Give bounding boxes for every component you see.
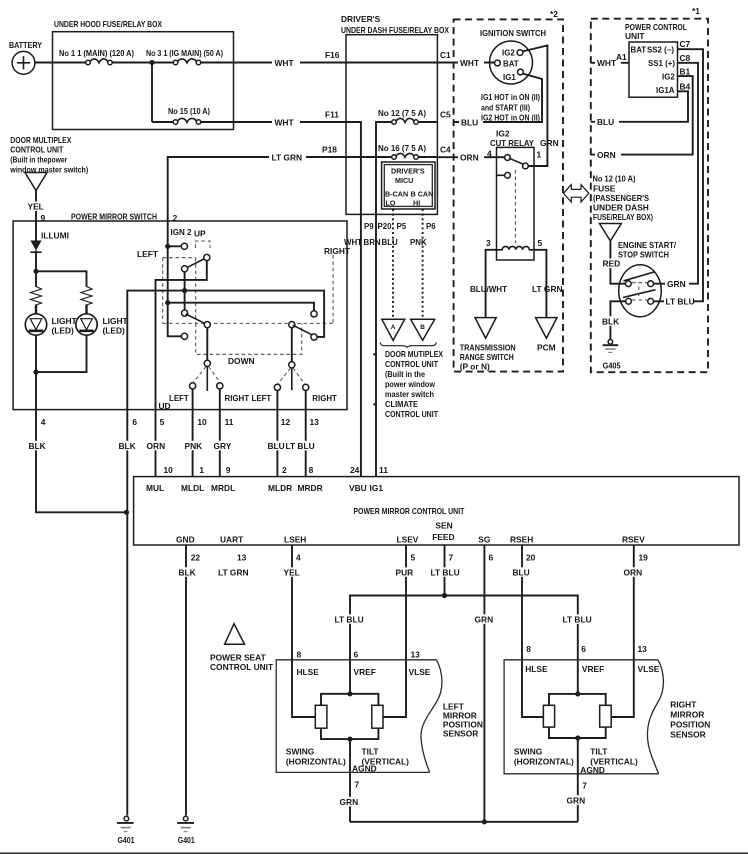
- note IG1/IG2 hot: [481, 92, 540, 123]
- svg-text:MLDL: MLDL: [181, 483, 204, 493]
- wire E to F: [206, 328, 208, 361]
- wire WHT row2 to F11: [201, 110, 346, 128]
- triangle door multiplex: [25, 173, 47, 191]
- svg-text:master switch: master switch: [385, 389, 434, 399]
- bridge top bus left sensor: [321, 694, 378, 706]
- wire A1 WHT: [591, 52, 629, 68]
- svg-text:8: 8: [309, 465, 314, 475]
- wire VLSE right to tilt pot: [611, 660, 634, 717]
- bridge bottom bus left sensor: [321, 728, 378, 739]
- wire LSEV 5 PUR: [395, 545, 416, 660]
- svg-text:20: 20: [526, 553, 536, 563]
- svg-text:ORN: ORN: [147, 441, 166, 451]
- svg-text:DOOR MUTIPLEX: DOOR MUTIPLEX: [385, 349, 443, 359]
- connector labels P9 P20 P5 P6: [364, 222, 436, 231]
- svg-text:BAT: BAT: [631, 46, 647, 55]
- svg-text:GRN: GRN: [567, 796, 586, 806]
- svg-text:IG1: IG1: [370, 483, 384, 493]
- svg-text:B CAN: B CAN: [411, 190, 434, 199]
- svg-text:13: 13: [237, 553, 247, 563]
- wire LT BLU from switch: [664, 296, 695, 307]
- wire P20 vertical with fuse 12 branch: [376, 122, 391, 214]
- svg-text:RIGHT: RIGHT: [312, 394, 337, 403]
- wire F16 to C1 inside box: [346, 62, 437, 64]
- tilt pot resistor: [372, 705, 383, 728]
- wire pin10 PNK to MLDL: [183, 410, 207, 477]
- svg-text:LIGHT: LIGHT: [52, 316, 78, 326]
- node agnd tap left: [347, 737, 352, 742]
- svg-text:FUSE/RELAY BOX): FUSE/RELAY BOX): [593, 212, 653, 222]
- contact A: [181, 243, 187, 249]
- svg-text:WHT: WHT: [275, 58, 295, 68]
- wire diode to junction: [35, 251, 37, 288]
- svg-text:BLU: BLU: [461, 118, 478, 128]
- under hood fuse/relay box: [53, 19, 234, 130]
- svg-text:(HORIZONTAL): (HORIZONTAL): [514, 756, 574, 766]
- svg-text:VLSE: VLSE: [409, 667, 431, 677]
- svg-text:PNK: PNK: [185, 441, 203, 451]
- svg-text:10: 10: [197, 417, 207, 427]
- driver's under dash fuse/relay box: [341, 14, 449, 214]
- blade left lower: [186, 314, 209, 325]
- driver's MICU box: [382, 162, 435, 209]
- svg-text:22: 22: [191, 553, 201, 563]
- tilt pot resistor right: [600, 705, 612, 727]
- ground G405: [603, 340, 621, 371]
- svg-text:IG2: IG2: [502, 49, 515, 58]
- node GRN bus tap: [482, 819, 487, 824]
- wire pin13 lead: [305, 391, 307, 410]
- contact pin10: [190, 383, 196, 389]
- svg-text:SS1 (+): SS1 (+): [648, 59, 675, 68]
- wire YEL pin 9: [27, 191, 46, 241]
- wire fuse16 to C4: [419, 156, 438, 158]
- svg-text:BLK: BLK: [602, 317, 619, 327]
- svg-text:(LED): (LED): [52, 326, 75, 336]
- svg-text:HLSE: HLSE: [525, 664, 548, 674]
- svg-text:8: 8: [526, 644, 531, 654]
- svg-text:IGN 2: IGN 2: [171, 227, 192, 237]
- wire branch to right LED: [36, 271, 87, 287]
- LED left: [25, 305, 77, 336]
- wire contact A feed: [168, 245, 182, 247]
- svg-text:3: 3: [486, 238, 491, 248]
- svg-text:B1: B1: [680, 67, 691, 77]
- svg-text:LO: LO: [386, 199, 396, 208]
- wire LT GRN row3 to P18: [168, 145, 346, 222]
- svg-text:SENSOR: SENSOR: [443, 729, 478, 739]
- triangle transmission range switch: [460, 318, 516, 372]
- svg-text:6: 6: [489, 553, 494, 563]
- wire AGND down left sensor: [339, 739, 360, 822]
- wire pin11 GRY to MRDL: [212, 410, 234, 477]
- wire P20 BRN down to pin 11: [375, 214, 377, 476]
- svg-text:FEED: FEED: [432, 532, 454, 542]
- svg-text:LT BLU: LT BLU: [431, 568, 460, 578]
- contact J down right: [289, 362, 295, 368]
- dashed throws right: [278, 368, 305, 384]
- svg-text:BATTERY: BATTERY: [9, 40, 42, 50]
- dashed box *2 ignition circuit: [454, 9, 563, 372]
- wire P5 dotted from MICU: [392, 209, 394, 319]
- node vref tap right: [575, 691, 580, 696]
- svg-text:BLU: BLU: [268, 441, 285, 451]
- svg-text:C4: C4: [440, 145, 451, 155]
- wire right LED joins left: [36, 335, 87, 372]
- svg-text:C7: C7: [680, 39, 691, 49]
- wire F11 corner down to P9: [346, 122, 361, 214]
- contact D: [182, 310, 188, 316]
- wire pin12 BLU to MLDR: [266, 410, 290, 477]
- svg-text:BLK: BLK: [119, 441, 136, 451]
- fuse No 12 10A label: [593, 174, 654, 223]
- blade right: [293, 325, 315, 336]
- svg-text:POWER MIRROR CONTROL UNIT: POWER MIRROR CONTROL UNIT: [353, 506, 465, 516]
- ground G401 left: [117, 816, 135, 845]
- svg-text:BRN: BRN: [364, 238, 381, 247]
- svg-text:RIGHT: RIGHT: [324, 246, 351, 256]
- wire sen feed bus LT BLU: [334, 596, 593, 660]
- engine start/stop switch: [618, 240, 677, 317]
- wire P6 dotted from MICU: [422, 209, 424, 319]
- node LED join: [33, 370, 38, 375]
- wire GND 22 BLK to ground: [177, 545, 200, 815]
- svg-text:MRDR: MRDR: [298, 483, 323, 493]
- svg-text:No 3 1 (IG MAIN) (50 A): No 3 1 (IG MAIN) (50 A): [146, 48, 223, 58]
- fuse No 15 (10A): [152, 106, 210, 124]
- wire battery to fuse No 1-1: [35, 62, 86, 64]
- svg-text:LT GRN: LT GRN: [272, 153, 303, 163]
- svg-text:C8: C8: [680, 53, 691, 63]
- contact F down: [204, 360, 210, 366]
- right sensor pin labels: [525, 644, 660, 674]
- UART 13 LT GRN label only: [218, 553, 249, 578]
- svg-text:P9: P9: [364, 222, 374, 231]
- svg-text:VREF: VREF: [582, 664, 604, 674]
- svg-text:GRN: GRN: [475, 615, 494, 625]
- node bus2 tap: [182, 288, 187, 293]
- svg-text:RIGHT: RIGHT: [225, 394, 250, 403]
- ILLUMI diode: [30, 231, 69, 253]
- wire down from junction: [151, 63, 153, 123]
- svg-text:G405: G405: [603, 361, 621, 371]
- wire H to J: [291, 328, 293, 362]
- wire relay 3 BLU/WHT to transmission range switch: [470, 250, 508, 317]
- power mirror control unit box: [134, 477, 739, 545]
- svg-text:LSEV: LSEV: [397, 535, 419, 545]
- svg-text:P18: P18: [322, 145, 337, 155]
- wire VREF into bridge: [349, 660, 351, 694]
- label left mirror position sensor: [443, 702, 483, 739]
- svg-text:2: 2: [173, 213, 178, 223]
- contact G right top: [311, 311, 317, 317]
- svg-text:VBU: VBU: [349, 483, 367, 493]
- contact C: [182, 266, 188, 272]
- svg-text:4: 4: [487, 149, 492, 159]
- svg-text:P5: P5: [397, 222, 407, 231]
- fuse No 3-1 (IG MAIN 50A): [146, 48, 223, 65]
- wire pin12 lead: [276, 391, 278, 410]
- svg-text:LEFT: LEFT: [169, 394, 189, 403]
- node IGN2 top: [165, 244, 170, 249]
- svg-text:BLU: BLU: [382, 238, 399, 247]
- power mirror switch box: [13, 212, 347, 410]
- svg-text:13: 13: [310, 417, 320, 427]
- svg-text:A1: A1: [616, 52, 627, 62]
- dashed mechanical linkage: [163, 241, 333, 354]
- wire pin6 bus: [127, 291, 324, 410]
- svg-text:6: 6: [581, 644, 586, 654]
- right mirror position sensor box: [504, 660, 663, 774]
- svg-text:(PASSENGER'S: (PASSENGER'S: [593, 193, 649, 203]
- svg-text:BLU: BLU: [513, 568, 530, 578]
- svg-text:VLSE: VLSE: [638, 664, 660, 674]
- pin 24 11 labels: [350, 465, 388, 475]
- svg-text:LT BLU: LT BLU: [335, 615, 364, 625]
- svg-text:CONTROL UNIT: CONTROL UNIT: [385, 409, 439, 419]
- svg-text:SWING: SWING: [286, 747, 314, 757]
- wire IGN2 vertical: [168, 221, 182, 336]
- svg-text:IGNITION SWITCH: IGNITION SWITCH: [480, 28, 546, 38]
- wire WHT C1 to BAT: [437, 57, 494, 68]
- dashed throws left: [194, 367, 221, 383]
- svg-text:B4: B4: [680, 82, 691, 92]
- wire RED fuse to switch: [602, 241, 625, 284]
- wire C7 to LT BLU: [653, 49, 704, 301]
- svg-text:No 12 (10 A): No 12 (10 A): [593, 174, 636, 184]
- wire fuse12 to C5: [419, 121, 438, 123]
- svg-text:HLSE: HLSE: [297, 667, 320, 677]
- svg-text:WHT: WHT: [275, 118, 295, 128]
- list door multiplex / climate control unit: [373, 349, 443, 419]
- wire HLSE right to swing pot: [522, 660, 543, 717]
- svg-text:CONTROL UNIT: CONTROL UNIT: [385, 359, 439, 369]
- triangle connector B: [411, 319, 435, 340]
- svg-text:ORN: ORN: [624, 568, 643, 578]
- svg-text:YEL: YEL: [284, 568, 300, 578]
- svg-text:POWER MIRROR SWITCH: POWER MIRROR SWITCH: [71, 212, 157, 222]
- wire P18 to fuse 16: [346, 156, 391, 158]
- svg-text:IG1: IG1: [503, 73, 516, 82]
- wire pin13 LT BLU to MRDR: [285, 410, 319, 477]
- svg-text:13: 13: [638, 644, 648, 654]
- ground G401 right: [177, 816, 195, 845]
- brace under triangles: [380, 342, 436, 347]
- svg-text:POWER SEAT: POWER SEAT: [210, 653, 267, 663]
- svg-text:UART: UART: [220, 535, 244, 545]
- wire B to UD bus: [156, 261, 207, 410]
- svg-text:BLU: BLU: [597, 117, 614, 127]
- fuse No 12 (7.5A): [378, 108, 426, 124]
- wire SG GRN: [474, 545, 495, 822]
- wire ORN C4 to relay pin 4: [437, 152, 504, 163]
- svg-text:LT BLU: LT BLU: [286, 441, 315, 451]
- wire junction to fuse No 3-1: [152, 62, 173, 64]
- svg-text:POSITION: POSITION: [670, 720, 710, 730]
- svg-text:PNK: PNK: [410, 238, 427, 247]
- wire relay 5 LT GRN to PCM: [532, 250, 563, 317]
- svg-text:ORN: ORN: [597, 150, 616, 160]
- svg-text:LT GRN: LT GRN: [532, 284, 563, 294]
- svg-text:MUL: MUL: [146, 483, 164, 493]
- fuse No 1-1 (MAIN 120A): [59, 48, 134, 65]
- wire pin4 BLK: [27, 410, 127, 513]
- svg-text:SS2 (−): SS2 (−): [647, 46, 674, 55]
- wire LSEH 4 YEL: [283, 545, 301, 660]
- svg-text:power window: power window: [385, 379, 435, 389]
- svg-text:ENGINE START/: ENGINE START/: [618, 240, 677, 250]
- svg-text:1: 1: [199, 465, 204, 475]
- node sen feed tap: [442, 593, 447, 598]
- top pin labels inside control unit: [146, 483, 383, 493]
- wire GRN bottom bus: [350, 821, 578, 823]
- svg-text:IG2: IG2: [496, 129, 510, 139]
- resistor left: [31, 287, 42, 306]
- svg-text:FUSE: FUSE: [593, 184, 616, 194]
- svg-text:RSEV: RSEV: [622, 535, 645, 545]
- svg-text:P20: P20: [378, 222, 393, 231]
- svg-text:12: 12: [281, 417, 291, 427]
- svg-text:YEL: YEL: [28, 202, 44, 212]
- contact pin12: [274, 384, 280, 390]
- LED right: [76, 305, 129, 336]
- svg-text:TILT: TILT: [590, 747, 608, 757]
- battery: [9, 40, 42, 74]
- svg-text:*1: *1: [692, 6, 700, 16]
- wire pin5 ORN to MUL: [145, 410, 173, 477]
- svg-text:13: 13: [411, 650, 421, 660]
- wire RSEH 20 BLU: [512, 545, 536, 660]
- wire AGND down right sensor: [566, 738, 587, 822]
- svg-text:C1: C1: [440, 50, 451, 60]
- svg-text:11: 11: [379, 465, 388, 475]
- bottom pin labels inside control unit: [176, 521, 645, 545]
- node IGN2 mid: [165, 300, 170, 305]
- svg-text:5: 5: [538, 238, 543, 248]
- wire IGN2 right bus: [168, 303, 314, 311]
- svg-text:CUT RELAY: CUT RELAY: [490, 138, 534, 148]
- svg-text:HI: HI: [413, 199, 420, 208]
- wire BLK to ground: [602, 301, 626, 339]
- svg-text:2: 2: [282, 465, 287, 475]
- svg-text:F16: F16: [325, 50, 340, 60]
- svg-text:UP: UP: [194, 229, 206, 239]
- svg-text:GRN: GRN: [340, 797, 359, 807]
- svg-text:•: •: [373, 399, 376, 409]
- svg-text:DRIVER'S: DRIVER'S: [391, 167, 425, 176]
- svg-text:LT GRN: LT GRN: [218, 568, 249, 578]
- svg-text:SWING: SWING: [514, 747, 542, 757]
- svg-text:6: 6: [354, 650, 359, 660]
- svg-text:F11: F11: [325, 110, 339, 120]
- wire P9 WHT down to pin 24: [360, 214, 362, 476]
- dashed box *1 power control unit circuit: [591, 6, 708, 372]
- svg-text:5: 5: [411, 553, 416, 563]
- svg-text:AGND: AGND: [580, 765, 605, 775]
- wire C to D: [184, 272, 186, 310]
- svg-text:10: 10: [164, 465, 174, 475]
- svg-text:PCM: PCM: [537, 343, 556, 353]
- svg-text:ORN: ORN: [460, 153, 479, 163]
- svg-text:ILLUMI: ILLUMI: [41, 231, 69, 241]
- svg-text:GRN: GRN: [667, 279, 686, 289]
- svg-text:4: 4: [41, 417, 46, 427]
- left sensor text labels: [286, 747, 409, 774]
- svg-text:(P or N): (P or N): [460, 362, 490, 372]
- svg-text:TILT: TILT: [362, 747, 380, 757]
- svg-text:IG1A: IG1A: [656, 86, 675, 95]
- bridge bottom bus right sensor: [549, 727, 606, 738]
- svg-text:No 12 (7 5 A): No 12 (7 5 A): [378, 108, 426, 118]
- svg-text:9: 9: [226, 465, 231, 475]
- svg-text:6: 6: [132, 417, 137, 427]
- svg-text:No 1 1 (MAIN) (120 A): No 1 1 (MAIN) (120 A): [59, 48, 134, 58]
- wire pin6 BLK to ground: [117, 410, 137, 816]
- svg-text:RED: RED: [603, 259, 621, 269]
- svg-text:BLK: BLK: [29, 441, 46, 451]
- wire C8 to GRN: [653, 63, 699, 284]
- svg-text:window master switch): window master switch): [9, 165, 88, 175]
- wire B1 to ORN: [591, 76, 693, 160]
- triangle PCM: [536, 318, 558, 353]
- swing pot resistor: [315, 705, 327, 728]
- svg-text:IG1 HOT in ON (II): IG1 HOT in ON (II): [481, 92, 540, 102]
- wire color labels WHT BRN BLU PNK: [344, 238, 427, 247]
- svg-text:LT BLU: LT BLU: [563, 615, 592, 625]
- wire fuse1 to junction: [113, 62, 152, 64]
- svg-text:G401: G401: [118, 835, 135, 845]
- svg-text:RANGE SWITCH: RANGE SWITCH: [460, 352, 514, 362]
- svg-text:CONTROL UNIT: CONTROL UNIT: [210, 662, 274, 672]
- resistor right: [81, 287, 92, 306]
- wire IG2 to GRN vertical: [522, 46, 547, 167]
- svg-text:(Built in thepower: (Built in thepower: [10, 155, 68, 165]
- svg-text:CONTROL UNIT: CONTROL UNIT: [10, 145, 64, 155]
- svg-text:1: 1: [537, 150, 542, 160]
- ignition switch: [480, 28, 546, 84]
- svg-text:BLK: BLK: [179, 568, 196, 578]
- svg-text:IG2: IG2: [662, 73, 675, 82]
- contact H right pivot: [289, 322, 295, 328]
- svg-text:MICU: MICU: [395, 176, 413, 185]
- svg-text:GRY: GRY: [214, 441, 232, 451]
- svg-text:MRDL: MRDL: [211, 483, 235, 493]
- svg-text:19: 19: [639, 553, 649, 563]
- svg-text:No 15 (10 A): No 15 (10 A): [168, 106, 210, 116]
- svg-text:VREF: VREF: [354, 667, 376, 677]
- svg-text:LT BLU: LT BLU: [666, 297, 695, 307]
- svg-text:4: 4: [296, 553, 301, 563]
- svg-text:SG: SG: [478, 535, 490, 545]
- svg-text:WHT: WHT: [597, 58, 617, 68]
- svg-text:SENSOR: SENSOR: [670, 730, 705, 740]
- wire HLSE to swing pot: [292, 660, 315, 717]
- wire VLSE to tilt pot: [383, 660, 406, 717]
- svg-text:IG2 HOT in ON (II): IG2 HOT in ON (II): [481, 113, 540, 123]
- actuator stub left: [206, 366, 208, 391]
- wire left LED down to pin 4: [35, 335, 37, 410]
- svg-text:UNDER DASH: UNDER DASH: [593, 203, 649, 213]
- svg-text:GND: GND: [176, 535, 195, 545]
- svg-text:(LED): (LED): [103, 326, 126, 336]
- svg-text:UNDER HOOD FUSE/RELAY BOX: UNDER HOOD FUSE/RELAY BOX: [54, 19, 162, 29]
- contact pin11: [217, 383, 223, 389]
- svg-text:GRN: GRN: [540, 138, 559, 148]
- svg-text:C5: C5: [440, 110, 451, 120]
- svg-text:UNIT: UNIT: [625, 31, 645, 41]
- svg-text:5: 5: [160, 417, 165, 427]
- triangle fuse passenger: [600, 224, 622, 242]
